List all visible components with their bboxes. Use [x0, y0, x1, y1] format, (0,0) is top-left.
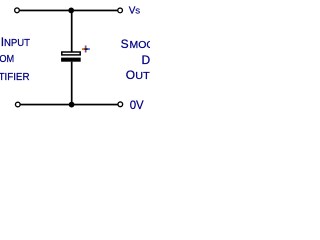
terminal BL [15, 102, 20, 107]
svg-text:NPUT: NPUT [4, 38, 30, 49]
capacitor polarity plus sign [82, 46, 90, 53]
terminal BR [118, 102, 123, 107]
svg-text:ROM: ROM [0, 54, 14, 65]
capacitor C1 top plate [62, 52, 80, 55]
node bottom junction [69, 102, 75, 108]
svg-text:D: D [142, 53, 151, 67]
node top junction [68, 7, 74, 13]
svg-text:ECTIFIER: ECTIFIER [0, 72, 30, 83]
svg-text:S: S [121, 37, 129, 51]
svg-text:O: O [126, 68, 135, 82]
svg-text:0V: 0V [130, 98, 144, 112]
label FROM line 2 (left, cropped; shows "OM") [0, 51, 14, 65]
capacitor C1 bottom plate [61, 58, 81, 62]
wire capacitor bottom lead [71, 62, 73, 105]
svg-text:MOOTH: MOOTH [130, 40, 151, 51]
svg-text:UTPUT: UTPUT [135, 71, 150, 82]
wire top rail [20, 10, 118, 12]
terminal TR [118, 8, 123, 13]
terminal TL [15, 8, 20, 13]
label SMOOTH line 1 (right, cropped; shows "SMOO") [121, 37, 169, 51]
wire bottom rail [20, 104, 117, 106]
label INPUT line 1 (left, cropped small-caps "Input") [1, 35, 30, 49]
svg-text:S: S [135, 7, 140, 16]
wire capacitor top lead [71, 10, 73, 51]
label RECTIFIER line 3 (left, cropped; shows "TIFIER") [0, 69, 30, 83]
label OUTPUT line 3 (right, cropped; shows "OUT") [126, 68, 172, 82]
